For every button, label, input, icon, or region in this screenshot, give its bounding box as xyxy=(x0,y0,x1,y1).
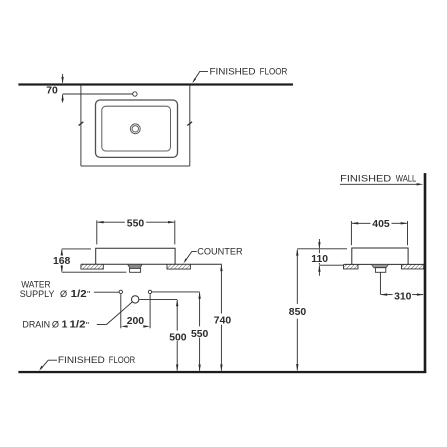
svg-text:168: 168 xyxy=(53,256,71,267)
counter (top view) xyxy=(81,86,190,166)
basin rim box (front view) xyxy=(96,248,175,264)
svg-text:FLOOR: FLOOR xyxy=(260,67,288,77)
svg-text:70: 70 xyxy=(46,86,58,97)
extension drain to 500 dim xyxy=(139,298,177,300)
svg-text:1/2: 1/2 xyxy=(71,289,87,300)
dimension 405 xyxy=(351,219,407,245)
faucet hole xyxy=(133,92,137,96)
svg-text:405: 405 xyxy=(372,219,390,230)
water supply leader xyxy=(94,291,119,293)
svg-text:550: 550 xyxy=(127,218,145,229)
dimension 550 (vertical) xyxy=(191,292,209,371)
svg-text:110: 110 xyxy=(311,254,328,265)
svg-text:Ø: Ø xyxy=(52,320,59,330)
svg-text:550: 550 xyxy=(191,329,209,340)
svg-text:Ø: Ø xyxy=(60,289,67,299)
label FINISHED FLOOR (top) xyxy=(192,67,287,84)
svg-text:COUNTER: COUNTER xyxy=(197,247,243,257)
basin rim (top view inner) xyxy=(102,106,171,151)
svg-text:SUPPLY: SUPPLY xyxy=(20,289,55,299)
drain hole (front view) xyxy=(132,296,139,303)
svg-text:DRAIN: DRAIN xyxy=(22,320,50,330)
svg-text:200: 200 xyxy=(127,316,145,327)
dimension 850 xyxy=(289,249,307,371)
dimension 550 (width) xyxy=(97,218,175,244)
label COUNTER xyxy=(183,247,243,264)
floor line (bottom, thick) xyxy=(18,371,426,373)
dimension 740 xyxy=(214,264,232,371)
supply hole left xyxy=(119,290,122,293)
svg-text:": " xyxy=(87,290,90,300)
counter hatched bar right (side) xyxy=(402,265,424,269)
svg-text:310: 310 xyxy=(394,292,412,303)
svg-text:1: 1 xyxy=(62,320,68,331)
svg-text:FLOOR: FLOOR xyxy=(109,355,136,365)
supply hole right xyxy=(148,290,151,293)
centerline tick right xyxy=(187,122,192,126)
centerline tick left xyxy=(79,122,84,126)
counter line (side view) xyxy=(344,263,424,265)
drain flange (side view) xyxy=(371,265,388,273)
dimension 168 xyxy=(53,249,126,272)
svg-text:FINISHED: FINISHED xyxy=(210,67,256,77)
counter hatched bar left xyxy=(81,264,103,269)
svg-text:740: 740 xyxy=(214,315,232,326)
dimension 310 xyxy=(380,292,423,303)
svg-text:WALL: WALL xyxy=(396,173,417,183)
label WATER SUPPLY xyxy=(20,279,91,300)
label DRAIN xyxy=(22,302,132,331)
dimension 70 xyxy=(46,74,64,103)
basin box (side view) xyxy=(352,248,408,264)
wall line (top, thick) xyxy=(18,83,293,85)
drain pipe line (side view) xyxy=(379,272,381,294)
svg-text:1/2: 1/2 xyxy=(70,320,86,331)
svg-text:FINISHED: FINISHED xyxy=(340,173,391,183)
extension supply to 550 dim xyxy=(152,291,200,293)
drain flange (front view) xyxy=(128,264,143,272)
counter hatched bar right xyxy=(167,264,190,269)
svg-text:": " xyxy=(86,320,89,330)
dimension 110 xyxy=(297,239,347,276)
basin rim (top view outer) xyxy=(96,100,178,157)
svg-text:WATER: WATER xyxy=(21,279,51,289)
counter hatched bar left (side) xyxy=(344,265,359,269)
dimension 200 xyxy=(121,294,150,328)
label FINISHED FLOOR (bottom) xyxy=(39,355,135,371)
label FINISHED WALL xyxy=(340,173,424,185)
wall line (right, thick) xyxy=(424,173,427,373)
counter line (front view) xyxy=(81,263,222,265)
faucet centerline xyxy=(63,93,133,95)
dimension 500 xyxy=(169,299,187,371)
drain (top view) xyxy=(130,124,140,134)
svg-text:FINISHED: FINISHED xyxy=(58,355,105,365)
svg-text:500: 500 xyxy=(169,332,187,343)
svg-text:850: 850 xyxy=(289,307,307,318)
